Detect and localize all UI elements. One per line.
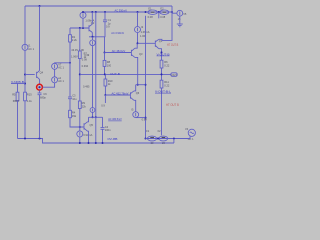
svg-text:R15: R15 <box>27 93 32 97</box>
svg-text:HT OUT B: HT OUT B <box>167 43 178 47</box>
wire base of Q4 <box>25 74 35 76</box>
wire R11 down <box>161 88 163 135</box>
svg-text:0.08: 0.08 <box>160 15 166 19</box>
svg-text:22k: 22k <box>82 104 87 108</box>
node in ring <box>38 86 40 88</box>
wire G1 stub up <box>92 37 94 40</box>
wire q1 base <box>138 42 156 44</box>
node <box>145 11 147 13</box>
wire C1 to vas node <box>104 22 106 37</box>
port tag OUT <box>171 73 177 77</box>
source V1 upper <box>52 63 58 69</box>
node out rail left <box>79 73 81 75</box>
svg-text:100: 100 <box>107 63 112 67</box>
node <box>145 84 147 86</box>
svg-text:0.495: 0.495 <box>83 85 90 89</box>
second bus y12 <box>83 11 172 13</box>
transistor Q3 <box>131 48 143 57</box>
svg-text:R4: R4 <box>72 110 76 114</box>
svg-text:AC 1: AC 1 <box>58 79 64 83</box>
dependent source E2 <box>160 6 169 19</box>
wire R10 to q6 base node <box>104 86 106 95</box>
svg-text:39k: 39k <box>72 114 77 118</box>
svg-text:OUT-B: OUT-B <box>110 72 120 76</box>
wire left rail upper <box>24 6 26 44</box>
svg-text:R9: R9 <box>82 101 86 105</box>
svg-text:680p: 680p <box>40 96 46 100</box>
wire Q2 emitter up <box>91 12 93 24</box>
resistor R5 <box>16 92 19 101</box>
wire I5 to rail <box>135 117 137 119</box>
svg-text:AC 0.99mV: AC 0.99mV <box>111 31 124 35</box>
svg-text:R5: R5 <box>12 93 16 97</box>
svg-text:V5: V5 <box>183 12 187 16</box>
source I5 <box>133 112 139 118</box>
transistor Q6 <box>130 91 139 100</box>
resistor R9 <box>78 101 81 109</box>
svg-text:0.94mA: 0.94mA <box>83 133 92 137</box>
node <box>79 27 81 29</box>
svg-text:AC 48.0uV: AC 48.0uV <box>112 49 126 53</box>
source I6 <box>90 108 95 113</box>
wire left rail lower <box>24 50 26 92</box>
AC source right bottom <box>188 129 195 136</box>
node <box>104 11 106 13</box>
resistor R7 <box>78 51 81 59</box>
wire I2 bottom to q1 base wire <box>137 33 139 44</box>
node <box>39 138 41 140</box>
dependent source E1 <box>148 6 158 19</box>
svg-text:R6: R6 <box>164 60 168 64</box>
svg-text:0.94: 0.94 <box>142 117 148 121</box>
wire red node right <box>42 83 54 87</box>
svg-text:0.99: 0.99 <box>82 57 88 61</box>
node <box>82 11 84 13</box>
svg-text:R11: R11 <box>164 80 169 84</box>
svg-text:AC 1: AC 1 <box>28 47 34 51</box>
node top bus x40 <box>39 5 41 7</box>
svg-text:Q3: Q3 <box>139 52 143 56</box>
node <box>91 11 93 13</box>
wire G1 down <box>92 46 94 108</box>
svg-text:680R: 680R <box>13 99 19 103</box>
svg-text:HT OUT B: HT OUT B <box>166 103 179 107</box>
wire bus to V source <box>172 12 177 14</box>
svg-text:R1: R1 <box>72 35 76 39</box>
wire q6 emitter to rail <box>136 117 146 119</box>
transistor Q4 <box>37 70 44 79</box>
wire AC source stub <box>188 136 190 138</box>
node <box>79 142 81 144</box>
wire x70 to Q5 base <box>70 118 84 127</box>
source G1 <box>90 40 96 46</box>
node <box>137 11 139 13</box>
wire R8 to out rail <box>104 66 106 74</box>
svg-text:Q2: Q2 <box>91 21 95 25</box>
svg-text:100n: 100n <box>105 128 111 132</box>
svg-text:E2: E2 <box>160 6 164 10</box>
node <box>95 142 97 144</box>
wire top pair base rail <box>70 27 89 29</box>
dependent source F2 <box>158 129 168 145</box>
resistor R1 <box>69 35 72 42</box>
wire q1 collector to top rail <box>159 6 172 40</box>
node <box>137 84 139 86</box>
svg-text:AC 452.78mV: AC 452.78mV <box>112 91 129 95</box>
current source I1 <box>22 44 28 50</box>
ground bus left <box>18 139 175 144</box>
node <box>79 126 81 128</box>
wire q6 emitter <box>134 100 136 111</box>
wire x70 rail low <box>69 99 71 111</box>
svg-text:1.06V: 1.06V <box>71 55 78 59</box>
wire cap to ground bus <box>39 95 41 139</box>
svg-text:0.9: 0.9 <box>106 24 110 28</box>
svg-text:AC 350mV: AC 350mV <box>115 9 128 13</box>
wire x95.8 rail <box>95 12 97 117</box>
svg-text:0.394: 0.394 <box>82 64 89 68</box>
wire q3 base to R8 <box>104 53 106 61</box>
wire to R5 <box>17 84 19 93</box>
capacitor C1 <box>103 12 111 28</box>
node <box>95 116 97 118</box>
node <box>82 27 84 29</box>
svg-text:E1: E1 <box>148 6 152 10</box>
svg-text:0.22: 0.22 <box>164 84 170 88</box>
wire I2 top <box>137 12 139 27</box>
svg-text:10u: 10u <box>72 97 77 101</box>
wire I3 to base rail <box>82 18 84 28</box>
svg-text:V4: V4 <box>185 127 189 131</box>
out rail <box>80 73 171 75</box>
svg-text:OUT: OUT <box>171 73 177 77</box>
wire source top to x70 rail <box>55 62 70 65</box>
wire Q2 collector down <box>91 32 93 36</box>
wire q6 collector <box>134 85 136 91</box>
stub below q6 node <box>104 95 106 103</box>
wire R15 to ground bus <box>24 101 26 139</box>
node between F <box>157 138 159 140</box>
wire to C4 <box>102 117 104 127</box>
wire q3 base <box>105 52 132 54</box>
node <box>24 138 26 140</box>
node <box>92 36 94 38</box>
source V2 lower <box>52 77 58 83</box>
svg-text:0.08: 0.08 <box>148 15 154 19</box>
resistor R4 <box>69 110 72 117</box>
node <box>104 73 106 75</box>
svg-text:0.9: 0.9 <box>101 104 105 108</box>
resistor R10 <box>104 74 106 79</box>
current source I2 <box>135 27 141 33</box>
wire q3 emitter <box>135 57 138 84</box>
node <box>158 11 160 13</box>
node <box>104 94 106 96</box>
node label tap <box>24 83 26 85</box>
capacitor C4 <box>101 125 112 132</box>
wire x95.8 to bus <box>95 117 97 143</box>
wire I4 to bus <box>79 137 81 143</box>
node q3 base <box>104 52 106 54</box>
wire x79.8 rail top <box>79 28 81 51</box>
wire q3 emitter to rail <box>136 84 146 86</box>
svg-text:0.22: 0.22 <box>164 63 170 67</box>
wire R6 to out rail <box>161 68 163 80</box>
wire vas node <box>89 36 105 38</box>
node <box>173 138 175 140</box>
svg-text:1.1k: 1.1k <box>27 99 33 103</box>
stub E2 minus <box>158 12 160 18</box>
wire vas down <box>104 37 106 53</box>
svg-text:2.2k: 2.2k <box>72 38 78 42</box>
wire emitter Q4 <box>39 79 41 84</box>
dependent source F1 <box>146 129 156 145</box>
transistor Q5 <box>84 122 94 131</box>
wire q3 collector <box>135 43 137 48</box>
node <box>171 11 173 13</box>
current source I3 <box>80 12 86 18</box>
wire x79.8 low <box>79 109 81 131</box>
wire top bus <box>25 5 172 7</box>
wire x70 rail top <box>69 28 71 35</box>
resistor R8 <box>103 60 106 66</box>
svg-text:0.49: 0.49 <box>84 53 90 57</box>
wire net label stub <box>11 83 25 85</box>
capacitor C3 <box>68 93 77 101</box>
node <box>88 142 90 144</box>
resistor R6 <box>160 60 163 68</box>
svg-text:Q6: Q6 <box>136 91 140 95</box>
node <box>102 142 104 144</box>
node <box>95 11 97 13</box>
wire q5 collector <box>88 117 89 122</box>
svg-text:0V-8B: 0V-8B <box>108 137 118 141</box>
wire between sources <box>54 69 56 77</box>
wire I6 to A <box>92 112 94 117</box>
wire x70 rail mid <box>69 42 71 97</box>
wire node to cap <box>39 90 41 92</box>
bottom diamond row <box>146 138 189 140</box>
svg-text:Q5: Q5 <box>90 123 94 127</box>
wire q1 emitter <box>159 49 162 61</box>
svg-text:Q4: Q4 <box>40 71 44 75</box>
current source I4 <box>77 131 83 137</box>
vas rail x145.5 <box>145 16 147 139</box>
resistor R15 <box>24 92 27 101</box>
node base tap <box>24 74 26 76</box>
node <box>161 73 163 75</box>
wire V source to ground <box>179 16 181 24</box>
svg-text:C3: C3 <box>72 93 76 97</box>
transistor Q1 <box>155 39 163 49</box>
wire q5 collector node wire <box>89 116 103 118</box>
svg-text:AC 1: AC 1 <box>188 137 194 141</box>
svg-text:C6: C6 <box>43 92 47 96</box>
svg-text:43.0V: 43.0V <box>71 48 78 52</box>
svg-text:AC 1: AC 1 <box>58 66 64 70</box>
capacitor C6 <box>38 92 48 99</box>
node <box>161 51 163 53</box>
resistor R11 <box>160 80 163 88</box>
node <box>92 116 94 118</box>
transistor Q2 <box>89 21 95 32</box>
svg-text:AC 460.5mV: AC 460.5mV <box>108 117 122 121</box>
node <box>145 138 147 140</box>
wire q5 emitter <box>88 131 89 143</box>
wire step to bus <box>173 139 175 144</box>
V source right <box>177 10 183 16</box>
node <box>137 42 139 44</box>
wire collector rail Q4 <box>39 6 41 70</box>
wire q6 base <box>105 94 130 96</box>
node <box>145 117 147 119</box>
wire R5 to ground bus <box>17 101 19 139</box>
wire C4 to bus <box>102 129 104 143</box>
red probe ring <box>37 84 43 90</box>
node <box>69 62 71 64</box>
svg-text:1.06: 1.06 <box>140 34 146 38</box>
ground symbol <box>177 24 183 27</box>
wire x79.8 rail mid <box>79 59 81 102</box>
